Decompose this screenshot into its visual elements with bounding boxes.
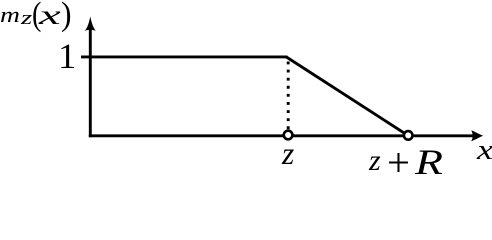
label z of z+R (369, 146, 381, 176)
label x of m_z(x) (39, 2, 61, 29)
x-axis arrowhead (471, 130, 483, 141)
plateau line at height 1 (with tick through axis) (81, 55, 287, 58)
label ( of m_z(x) (32, 0, 41, 31)
open circle at z (284, 131, 293, 140)
label 1 (y tick) (58, 38, 76, 74)
label z (at x=z) (282, 138, 294, 170)
x-axis (89, 134, 473, 137)
y-axis (89, 27, 92, 137)
label + of z+R (387, 143, 410, 184)
label x (x axis) (477, 136, 492, 165)
open circle at z+R (404, 131, 413, 140)
dotted vertical line at x=z (287, 62, 290, 130)
slope line from (z,1) to (z+R,0) (286, 57, 408, 136)
y-axis arrowhead (85, 16, 96, 31)
label m of m_z(x) (0, 4, 20, 26)
label subscript z of m_z(x) (21, 10, 32, 29)
label R of z+R (415, 144, 443, 180)
label ) of m_z(x) (61, 0, 72, 31)
